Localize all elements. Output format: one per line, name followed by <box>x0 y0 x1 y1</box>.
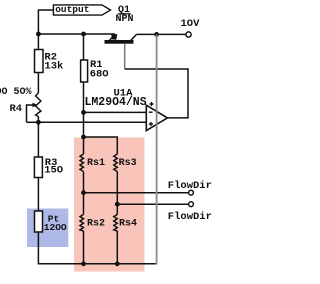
potentiometer R4 zigzag <box>36 93 41 117</box>
op-amp V+ pin marker <box>149 103 153 105</box>
node dot R1 top <box>81 32 86 37</box>
resistor R3 body <box>34 157 42 178</box>
svg-text:Rs3: Rs3 <box>119 158 137 169</box>
node dot rail/output <box>36 32 41 37</box>
svg-text:68O: 68O <box>90 68 109 80</box>
potentiometer wiper arrow <box>27 105 34 122</box>
resistor Pt body <box>35 211 43 232</box>
svg-text:OO 5O%: OO 5O% <box>0 87 32 98</box>
node dot Rs2 bottom <box>81 261 86 266</box>
op-amp plus input marker <box>149 123 153 125</box>
svg-text:NPN: NPN <box>116 14 134 25</box>
wire emitter node horizontal <box>38 33 115 35</box>
terminal circle FlowDir1 <box>189 190 194 195</box>
resistor Rs4 zigzag <box>114 214 118 231</box>
svg-text:Rs2: Rs2 <box>87 218 105 229</box>
svg-text:Rs4: Rs4 <box>119 218 137 229</box>
wire branch to Rs3 <box>84 137 118 154</box>
wire Rs3 rail + resistor Rs3 zigzag <box>114 154 118 172</box>
highlight box sensor network (pink) <box>74 138 145 272</box>
op-amp minus input marker <box>149 111 153 113</box>
wire left rail lower <box>37 117 39 265</box>
node dot FlowDir1 tap <box>81 190 86 195</box>
resistor R1 body <box>81 60 88 82</box>
wire feedback loop <box>125 69 188 118</box>
wire bottom rail <box>38 263 157 265</box>
wire power net gray vertical <box>156 34 158 264</box>
net flag output <box>53 5 110 15</box>
transistor Q1 collector diagonal <box>131 34 137 40</box>
svg-text:output: output <box>55 4 89 15</box>
terminal circle FlowDir2 <box>189 202 194 207</box>
transistor Q1 base bar <box>105 40 134 44</box>
highlight box Pt sensor (blue) <box>27 209 68 248</box>
wire Rs1 rail + resistor Rs1 zigzag <box>83 137 85 154</box>
wire output flag to left rail <box>38 9 54 11</box>
node dot wiper/rail <box>36 120 41 125</box>
svg-text:FlowDir: FlowDir <box>168 180 212 192</box>
svg-text:13k: 13k <box>44 61 63 73</box>
terminal circle 10V <box>186 32 191 37</box>
svg-text:Rs1: Rs1 <box>87 158 105 169</box>
svg-text:FlowDir: FlowDir <box>168 211 212 223</box>
wire R1 bottom vertical <box>83 82 85 137</box>
wire left rail top <box>37 9 39 93</box>
node dot Rs branch <box>81 135 86 140</box>
resistor Rs2 zigzag <box>80 214 84 231</box>
svg-text:15O: 15O <box>44 165 63 177</box>
transistor Q1 base lead <box>124 44 126 69</box>
resistor R2 body <box>35 50 44 73</box>
wire FlowDir1 <box>84 192 189 194</box>
node dot inverting input tap <box>81 110 86 115</box>
wire non-inverting input <box>38 121 146 123</box>
node dot Rs4 bottom <box>115 261 120 266</box>
wire R1 top drop <box>83 34 85 60</box>
wire FlowDir2 <box>117 203 188 205</box>
op-amp U1A triangle <box>146 105 167 130</box>
svg-text:1OV: 1OV <box>181 18 201 30</box>
wire inverting input <box>84 111 147 113</box>
node dot power tap <box>154 32 159 37</box>
svg-text:12OO: 12OO <box>44 222 67 233</box>
svg-text:LM29O4/NS: LM29O4/NS <box>85 96 147 109</box>
wire collector to 10V <box>137 33 186 35</box>
transistor Q1 emitter diagonal + arrow <box>110 34 116 40</box>
svg-text:R4: R4 <box>10 103 23 115</box>
node dot FlowDir2 tap <box>115 202 120 207</box>
